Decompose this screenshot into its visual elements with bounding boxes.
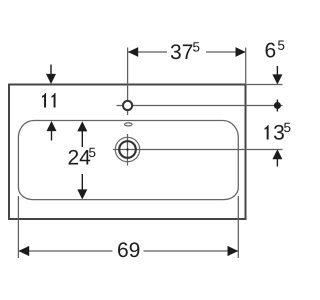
dimension 13.5 up arrow xyxy=(272,149,282,159)
datum dot marker (tap hole line) xyxy=(276,100,278,112)
dimension 69 left arrow xyxy=(18,246,29,256)
extension line right for 69 xyxy=(237,196,239,258)
dimension 37.5 right arrow xyxy=(236,47,246,57)
extension line left for 69 xyxy=(17,196,19,258)
drain hole bold circle xyxy=(119,141,136,158)
basin inner bowl outline xyxy=(18,120,238,199)
tap hole centerline vertical (extension line for 37.5) xyxy=(127,48,129,116)
dimension 37.5 line left segment xyxy=(128,51,167,53)
dimension text 13.5 xyxy=(265,123,291,140)
tap hole xyxy=(123,101,132,110)
dimension text 37.5 xyxy=(171,42,200,59)
dimension text 24.5 xyxy=(69,148,96,165)
dimension 6.5 down arrow xyxy=(276,66,278,76)
tap hole centerline horizontal (extends to right datum) xyxy=(117,105,283,107)
dimension 69 right arrow xyxy=(228,246,239,256)
dimension 24.5 down arrow xyxy=(81,174,83,190)
dimension 24.5 up arrow xyxy=(77,121,87,131)
dimension 69 line left segment xyxy=(18,250,112,252)
dimension 69 line right segment xyxy=(144,250,239,252)
drain crosshair vertical xyxy=(127,134,129,166)
rim top edge extension to right datum xyxy=(247,84,283,86)
dimension 11 up arrow below basin edge xyxy=(47,121,57,131)
dimension text 6.5 xyxy=(266,41,285,58)
dimension text 11 xyxy=(42,93,55,107)
dimension 11 down arrow above rim xyxy=(50,65,52,76)
drain crosshair horizontal (extends to right datum) xyxy=(113,149,283,151)
drain outer circle xyxy=(115,137,139,161)
dimension text 69 xyxy=(118,242,139,257)
washbasin outer rim rectangle xyxy=(9,85,246,220)
dimension 37.5 left arrow xyxy=(128,47,138,57)
dimension 37.5 line right segment xyxy=(206,51,246,53)
overflow slot xyxy=(125,123,133,126)
drain center dot xyxy=(126,148,128,150)
extension line right edge up to 37.5 dim xyxy=(245,48,247,85)
